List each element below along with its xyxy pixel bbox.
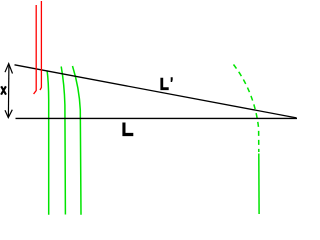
wavefront arc 2 (61, 67, 65, 215)
dimension arrow shaft (7, 65, 10, 118)
wavefront arc 1 (47, 71, 49, 215)
label x (1, 86, 6, 94)
wavefront arc 4 solid part (258, 154, 260, 215)
diagonal line L' (15, 65, 297, 118)
wavefront arc 3 (73, 66, 82, 215)
horizontal line L (16, 117, 298, 119)
arrowhead bottom (5, 110, 12, 118)
label L' (160, 78, 168, 90)
arrowhead top (5, 64, 13, 74)
wavefront arc 4 dashed part (234, 65, 259, 153)
label L (122, 123, 133, 137)
red barrier line left (34, 5, 37, 94)
red barrier line right (40, 1, 41, 90)
